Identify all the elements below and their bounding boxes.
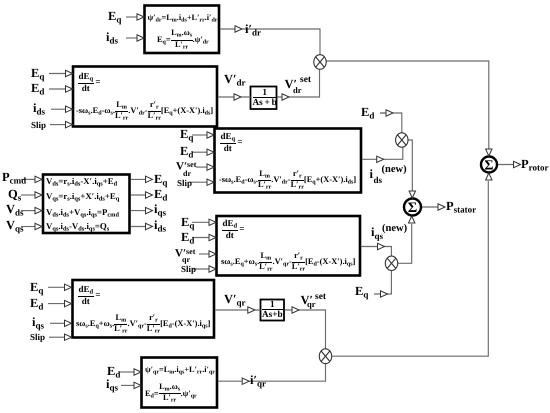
node label Ed B2 xyxy=(31,82,44,96)
node label Vqs xyxy=(6,219,24,233)
node label Ed B5 xyxy=(30,297,43,311)
arrow Slip B5 xyxy=(65,334,72,340)
summation Sum_stator xyxy=(404,199,421,216)
wire stub ids B2 xyxy=(51,108,66,110)
arrow Eq B2 xyxy=(66,70,73,76)
block B1 flux dr xyxy=(145,6,220,54)
arrow B2 out xyxy=(234,94,241,100)
node label Eq B4 xyxy=(181,216,194,230)
arrow Ed to X2 xyxy=(386,110,393,116)
wire Sum_rotor out xyxy=(498,164,515,166)
arrow Sum_rotor out xyxy=(514,161,521,167)
arrow Slip B3 xyxy=(207,179,214,185)
arrow B5 out xyxy=(248,307,255,313)
multiplier X4 xyxy=(319,349,331,364)
wire stub Qs B0 xyxy=(21,194,36,196)
block B6 flux qr xyxy=(142,358,218,408)
block TB2 1/(As+b) xyxy=(261,300,285,321)
wire stub Slip B4 xyxy=(192,268,209,270)
arrow out Ed B0 xyxy=(146,192,153,198)
node label out iqs B0 xyxy=(154,203,166,217)
wire X1 out to Sum_rotor xyxy=(326,61,489,149)
multiplier X2 xyxy=(396,133,408,147)
arrow B1 out xyxy=(235,26,242,32)
arrow Sum_rotor top xyxy=(486,149,492,156)
arrow Sum_stator out xyxy=(438,204,445,210)
wire stub Vdrset B3 xyxy=(196,166,208,168)
arrow TB2 out xyxy=(292,307,299,313)
eq B5 dEd/dt xyxy=(78,285,101,306)
arrow Vqrset B4 xyxy=(209,251,216,257)
arrow Sum_rotor bottom xyxy=(486,173,492,180)
wire X3 out to Sum_stator xyxy=(398,224,412,263)
wire B1 out to X1 xyxy=(220,29,320,55)
wire B3 out to X2 xyxy=(362,147,403,159)
node label out ids B0 xyxy=(154,219,166,233)
eq B3 dEq/dt xyxy=(220,132,243,153)
node label Ed B4 xyxy=(181,231,194,245)
arrow Eq to X3 xyxy=(381,291,388,297)
svg-text:Σ: Σ xyxy=(484,159,493,174)
wire stub Vqs B0 xyxy=(21,226,36,228)
wire stub ids B1 xyxy=(126,37,138,39)
node label Ed B6 xyxy=(107,365,120,379)
arrow B4 out xyxy=(378,243,385,249)
wire stub Eq B1 xyxy=(126,16,138,18)
wire stub Slip B3 xyxy=(189,181,208,183)
node label iqs B6 xyxy=(106,378,118,392)
node label P stator xyxy=(446,200,476,214)
wire Eq to X3 xyxy=(374,271,391,295)
arrow Eq B5 xyxy=(65,284,72,290)
wire B2 out to TB1 xyxy=(218,96,250,98)
node label V'qr set B4 xyxy=(175,248,195,259)
eq B2 main xyxy=(76,101,213,121)
block B5 dEd/dt xyxy=(73,280,215,338)
arrow out Eq B0 xyxy=(146,176,153,182)
arrow Ed B5 xyxy=(65,300,72,306)
eq TB1 xyxy=(253,88,277,107)
wire stub Eq B2 xyxy=(49,73,66,75)
svg-text:Σ: Σ xyxy=(408,200,417,216)
node label ids B1 xyxy=(106,31,118,45)
wire stub Ed B5 xyxy=(48,303,65,305)
arrow Slip B2 xyxy=(66,121,73,127)
wire stub Eq B3 xyxy=(192,134,208,136)
arrow TB1 out xyxy=(282,94,289,100)
node label iqs B5 xyxy=(32,316,44,330)
arrow Eq B4 xyxy=(209,219,216,225)
wire B4 out to X3 xyxy=(361,247,391,257)
eq B6 line1 xyxy=(145,366,215,377)
node label V'dr xyxy=(224,73,246,87)
node label Eq B1 xyxy=(108,10,121,24)
arrow B6 out xyxy=(242,378,249,384)
node label Ed B3 xyxy=(180,145,193,159)
node label Qs xyxy=(8,188,21,202)
eq B6 line2 xyxy=(145,383,197,405)
arrow Vds B0 xyxy=(35,207,42,213)
wire out iqs B0 xyxy=(131,210,147,212)
wire B5 out to TB2 xyxy=(215,309,260,311)
arrow Ed B4 xyxy=(209,234,216,240)
block B0 stator eqs xyxy=(43,175,130,234)
wire stub Ed to X2 arrow xyxy=(380,112,387,114)
arrow ids B2 xyxy=(66,106,73,112)
wire X4 out to Sum_rotor xyxy=(332,181,489,356)
arrow Eq B3 xyxy=(207,132,214,138)
wire Vqr_set to X4 xyxy=(285,310,326,349)
block TB1 1/(As+b) xyxy=(251,87,277,110)
node label ids new xyxy=(370,168,373,181)
arrow Sum_stator top xyxy=(409,191,415,198)
eq B1 line2 xyxy=(157,29,209,51)
wire out Eq B0 xyxy=(131,178,147,180)
arrow Qs B0 xyxy=(35,192,42,198)
wire B6 out to X4 xyxy=(218,364,325,381)
node label out Eq B0 xyxy=(154,173,167,187)
eq B0 line4 xyxy=(46,222,109,233)
block B2 dEq/dt xyxy=(73,67,217,127)
node label Eq to X3 xyxy=(355,285,368,299)
node label Slip B4 xyxy=(181,265,196,274)
eq B0 line3 xyxy=(46,208,119,219)
arrow Pcmd B0 xyxy=(35,176,42,182)
node label Slip B3 xyxy=(177,179,192,188)
wire Ed to X2 xyxy=(380,113,402,133)
arrow B3 out xyxy=(377,156,384,162)
arrow Vqs B0 xyxy=(35,223,42,229)
wire stub Ed B3 xyxy=(192,151,208,153)
wire X2 out to Sum_stator xyxy=(408,140,412,191)
node label V'qr set xyxy=(301,294,314,307)
arrow iqs B6 xyxy=(134,382,141,388)
eq B0 line2 xyxy=(46,192,119,203)
eq B0 line1 xyxy=(46,177,117,188)
arrow Ed B6 xyxy=(134,369,141,375)
eq B3 main xyxy=(219,170,356,190)
arrow Ed B2 xyxy=(66,86,73,92)
wire stub iqs B6 xyxy=(121,384,134,386)
eq B2 dEq/dt xyxy=(78,72,101,93)
node label out Ed B0 xyxy=(154,188,167,202)
multiplier X3 xyxy=(385,256,397,270)
wire stub Slip B5 xyxy=(49,336,65,338)
arrow Ed B3 xyxy=(207,149,214,155)
node label V'dr set B3 xyxy=(176,161,196,172)
node label P rotor xyxy=(521,158,548,172)
eq B5 main xyxy=(76,314,210,334)
arrow ids B1 xyxy=(137,35,144,41)
node label Eq B3 xyxy=(180,128,193,142)
node label i'dr out xyxy=(245,23,261,37)
wire out Ed B0 xyxy=(131,194,147,196)
wire out ids B0 xyxy=(131,226,147,228)
wire stub Ed B6 xyxy=(120,371,134,373)
wire Sum_stator out xyxy=(422,206,439,208)
node label Slip B5 xyxy=(30,333,45,342)
node label ids B2 xyxy=(33,102,45,116)
arrow out ids B0 xyxy=(146,223,153,229)
multiplier X1 xyxy=(314,55,326,70)
wire stub Ed B2 xyxy=(49,88,66,90)
arrow Eq B1 xyxy=(137,14,144,20)
block B3 dEq/dt solve ids xyxy=(215,129,362,193)
block borders xyxy=(43,6,361,408)
wire Vdr_set to X1 xyxy=(278,70,320,98)
node label Vds xyxy=(6,203,24,217)
arrow Sum_stator bottom xyxy=(409,216,415,223)
node label Eq B2 xyxy=(31,67,44,81)
node label Slip B2 xyxy=(31,121,46,130)
wire stub Eq B4 xyxy=(192,221,209,223)
node label Ed to X2 xyxy=(361,106,374,120)
arrow iqs B5 xyxy=(65,320,72,326)
node label Pcmd xyxy=(2,171,26,185)
eq B1 line1 xyxy=(148,14,218,25)
wire stub Eq B5 xyxy=(48,286,65,288)
wire stub Pcmd B0 xyxy=(21,178,36,180)
node label Eq B5 xyxy=(30,281,43,295)
arrow out iqs B0 xyxy=(146,207,153,213)
wire stub Slip B2 xyxy=(50,124,66,126)
node label i'qr out xyxy=(250,374,266,388)
node label V'qr xyxy=(224,293,246,307)
eq B4 main xyxy=(221,252,355,272)
wire stub Vds B0 xyxy=(21,210,36,212)
eq TB2 xyxy=(262,300,283,319)
arrow Slip B4 xyxy=(209,266,216,272)
wire stub Vqrset B4 xyxy=(199,253,209,255)
block B4 dEd/dt solve iqs xyxy=(217,216,361,276)
eq B4 dEd/dt xyxy=(222,219,245,240)
wire stub iqs B5 xyxy=(50,322,65,324)
arrow Vdrset B3 xyxy=(207,164,214,170)
node label iqs new xyxy=(371,226,374,239)
summation Sum_rotor xyxy=(481,157,497,173)
wire stub Ed B4 xyxy=(192,237,209,239)
node label V'dr set xyxy=(285,78,298,91)
